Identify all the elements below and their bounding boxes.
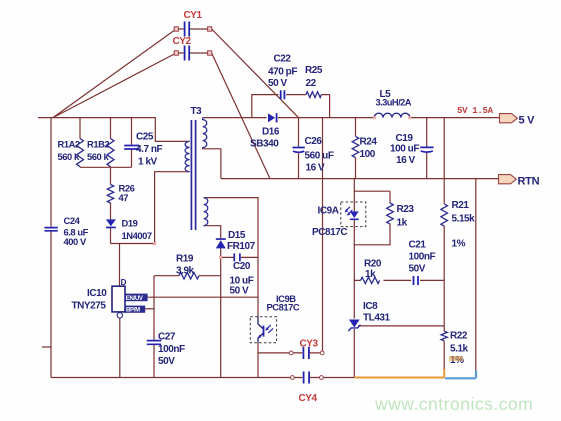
capacitor C20 [234, 253, 240, 261]
wire CY1 stubs [178, 28, 207, 30]
op-amp U1 IC10 TNY275 body [112, 286, 125, 312]
svg-text:3.3uH/2A: 3.3uH/2A [376, 98, 412, 108]
wire R1A2 leads [79, 118, 81, 168]
transformer T3 core [191, 120, 195, 230]
junction dot L5 right [408, 116, 411, 119]
wire bottom rail primary [51, 377, 290, 379]
wire highlight blue tick [475, 371, 477, 379]
svg-text:www.cntronics.com: www.cntronics.com [374, 394, 533, 414]
svg-text:R19: R19 [176, 254, 194, 265]
resistor R1A2 [77, 139, 84, 167]
wire RTN rail [221, 178, 498, 180]
resistor R20 [361, 277, 380, 283]
capacitor C24 [45, 228, 58, 231]
svg-text:100nF: 100nF [409, 252, 436, 263]
svg-text:16 V: 16 V [396, 155, 416, 166]
wire highlight blue bottom rail [445, 377, 476, 379]
svg-text:5.15k: 5.15k [452, 214, 476, 225]
resistor R23 [387, 203, 394, 224]
wire D15 anode chain to bottom rail [220, 248, 222, 377]
connector RTN [499, 175, 517, 184]
svg-text:50 V: 50 V [268, 78, 288, 89]
capacitor C22 [281, 90, 285, 99]
wire source pin to bottom rail [119, 318, 121, 377]
opto LED IC9A [341, 202, 366, 227]
svg-text:5 V: 5 V [519, 115, 536, 127]
diode D16 [268, 113, 278, 122]
wire C24 branch left rail [50, 118, 52, 378]
svg-text:T3: T3 [191, 106, 203, 117]
svg-text:TL431: TL431 [363, 313, 391, 324]
svg-text:IC9A: IC9A [318, 206, 339, 217]
svg-text:3.9k: 3.9k [176, 266, 195, 277]
pin BP/M [125, 306, 145, 314]
svg-text:CY4: CY4 [299, 393, 318, 404]
svg-text:PC817C: PC817C [312, 227, 347, 238]
transformer T3 primary winding [185, 141, 190, 171]
wire bottom rail secondary [323, 377, 354, 379]
resistor R1B2 [107, 139, 114, 167]
junction dot D15 C20 node [219, 256, 222, 259]
svg-text:1 kV: 1 kV [138, 157, 158, 168]
svg-text:R1A2: R1A2 [58, 139, 80, 150]
wire bias winding bottom to D15 [204, 226, 221, 239]
transformer T3 secondary winding [203, 118, 207, 148]
svg-text:100: 100 [360, 149, 376, 160]
svg-text:R1B2: R1B2 [87, 139, 109, 150]
svg-text:5.1k: 5.1k [450, 344, 469, 355]
svg-text:D19: D19 [122, 218, 138, 229]
resistor R19 [179, 272, 199, 279]
svg-text:560 k: 560 k [87, 151, 109, 162]
wire R20 C21 feedback [354, 279, 444, 281]
diode D15 [216, 238, 226, 248]
svg-text:50V: 50V [409, 264, 426, 275]
svg-text:C27: C27 [158, 332, 176, 343]
svg-text:CY3: CY3 [300, 339, 319, 350]
svg-text:400 V: 400 V [64, 236, 87, 247]
connector 5V [500, 114, 518, 123]
capacitor C26 [293, 148, 305, 153]
wire TL431 ref [358, 325, 444, 327]
wire R26 leads [110, 167, 112, 219]
wire CY2 right diagonal [212, 53, 270, 179]
svg-text:50 V: 50 V [230, 286, 250, 297]
svg-text:C21: C21 [409, 240, 427, 251]
svg-text:R22: R22 [450, 331, 468, 342]
svg-text:RTN: RTN [518, 176, 540, 188]
svg-text:IC8: IC8 [363, 301, 378, 312]
wire C26 leads [298, 118, 300, 179]
wire C20 leads [221, 256, 258, 258]
svg-text:100 uF: 100 uF [390, 144, 419, 155]
resistor R24 [352, 136, 359, 157]
wire R19/C27 vertical [153, 276, 155, 378]
svg-text:TNY275: TNY275 [72, 301, 107, 312]
shunt regulator IC8 TL431 [348, 320, 360, 332]
resistor R26 [107, 185, 113, 204]
junction dot drain corner [153, 242, 156, 245]
wire IC9A loop [354, 179, 390, 245]
wire CY1 right diagonal [212, 29, 299, 118]
transformer T3 bias winding [204, 198, 208, 226]
svg-text:560 uF: 560 uF [305, 151, 334, 162]
capacitor CY3 [289, 347, 324, 359]
wire CY2 left diagonal [53, 53, 176, 118]
wire R1B2 leads [110, 118, 112, 168]
svg-text:16 V: 16 V [306, 163, 326, 174]
svg-text:PC817C: PC817C [267, 302, 300, 313]
wire R24 leads [355, 118, 357, 179]
wire D19 lower lead [110, 228, 112, 244]
wire IC9A cathode down to R20 node [353, 220, 355, 319]
svg-text:22: 22 [306, 78, 317, 89]
wire R19 leads [154, 275, 221, 277]
diode D19 [106, 219, 116, 228]
svg-text:BP/M: BP/M [126, 308, 140, 314]
wire highlight orange R22 stub [443, 369, 445, 378]
svg-text:C25: C25 [136, 132, 154, 143]
svg-text:C22: C22 [274, 54, 292, 65]
wire C19 leads [426, 118, 428, 179]
wire R21 R22 feedback chain [443, 118, 445, 369]
wire CY1 left diagonal [53, 29, 176, 118]
wire snubber box [252, 95, 330, 118]
junction dot L5 left [373, 116, 376, 119]
wire clamp join line [80, 166, 132, 168]
svg-text:CY2: CY2 [173, 36, 192, 47]
wire C25 leads [131, 118, 133, 168]
svg-text:560 k: 560 k [58, 151, 80, 162]
svg-text:FR107: FR107 [227, 241, 256, 252]
svg-text:50V: 50V [158, 356, 175, 367]
svg-text:470 pF: 470 pF [268, 67, 297, 78]
svg-text:R23: R23 [397, 204, 415, 215]
svg-text:4.7 nF: 4.7 nF [136, 144, 163, 155]
svg-text:100nF: 100nF [158, 344, 185, 355]
svg-text:C19: C19 [396, 133, 414, 144]
svg-text:CY1: CY1 [184, 10, 203, 21]
svg-text:R24: R24 [360, 137, 378, 148]
capacitor CY4 [291, 372, 324, 384]
svg-text:R21: R21 [452, 200, 470, 211]
capacitor CY2 [174, 46, 212, 61]
wire bias winding top vertical [204, 198, 258, 298]
capacitor C21 [414, 276, 419, 285]
wire highlight orange bottom rail [354, 377, 444, 379]
svg-text:1%: 1% [452, 239, 466, 250]
svg-text:47: 47 [119, 192, 129, 203]
opto transistor IC9B [250, 317, 276, 343]
svg-text:1k: 1k [365, 269, 376, 280]
pin S [117, 313, 122, 318]
wire top rail primary [38, 118, 190, 142]
wire TL431 anode to bottom rail [353, 329, 355, 378]
label R22 tolerance highlight [449, 356, 463, 361]
svg-text:D15: D15 [228, 230, 246, 241]
svg-text:IC10: IC10 [87, 288, 107, 299]
wire secondary winding bottom [203, 148, 221, 179]
resistor R25 [306, 92, 321, 98]
wire BP/M pin [145, 308, 154, 310]
wire CY3 left branch [258, 352, 290, 354]
wire drain pin [119, 244, 121, 287]
pin EN/UV [125, 294, 148, 302]
wire CY2 stubs [178, 52, 207, 54]
svg-text:SB340: SB340 [250, 139, 279, 150]
wire primary bottom to drain node [111, 172, 190, 244]
wire secondary 5V rail [203, 117, 500, 119]
svg-text:D: D [121, 278, 127, 287]
svg-text:1N4007: 1N4007 [122, 230, 152, 241]
capacitor C25 [124, 146, 139, 150]
wire EN/UV to optocoupler [148, 297, 259, 317]
wire opto IC9B emitter down [257, 343, 259, 378]
capacitor CY1 [174, 22, 212, 37]
wire CY3 stubs [292, 352, 320, 354]
resistor R21 [441, 204, 448, 226]
capacitor C27 [147, 341, 161, 345]
wire stub left [42, 346, 51, 348]
svg-text:1k: 1k [397, 218, 408, 229]
svg-text:R25: R25 [305, 65, 323, 76]
svg-text:C20: C20 [233, 261, 251, 272]
svg-text:EN/UV: EN/UV [126, 296, 143, 302]
resistor R22 [441, 331, 447, 341]
svg-text:5V 1.5A: 5V 1.5A [457, 106, 494, 116]
svg-text:C24: C24 [64, 215, 81, 226]
inductor L5 [374, 113, 410, 117]
svg-text:C26: C26 [305, 136, 323, 147]
svg-text:R20: R20 [364, 259, 382, 270]
wire right return vertical [475, 179, 477, 378]
wire CY3 right long vertical [322, 118, 324, 351]
svg-text:D16: D16 [262, 127, 280, 138]
wire CY4 stubs [294, 377, 319, 379]
capacitor C19 [420, 147, 433, 152]
